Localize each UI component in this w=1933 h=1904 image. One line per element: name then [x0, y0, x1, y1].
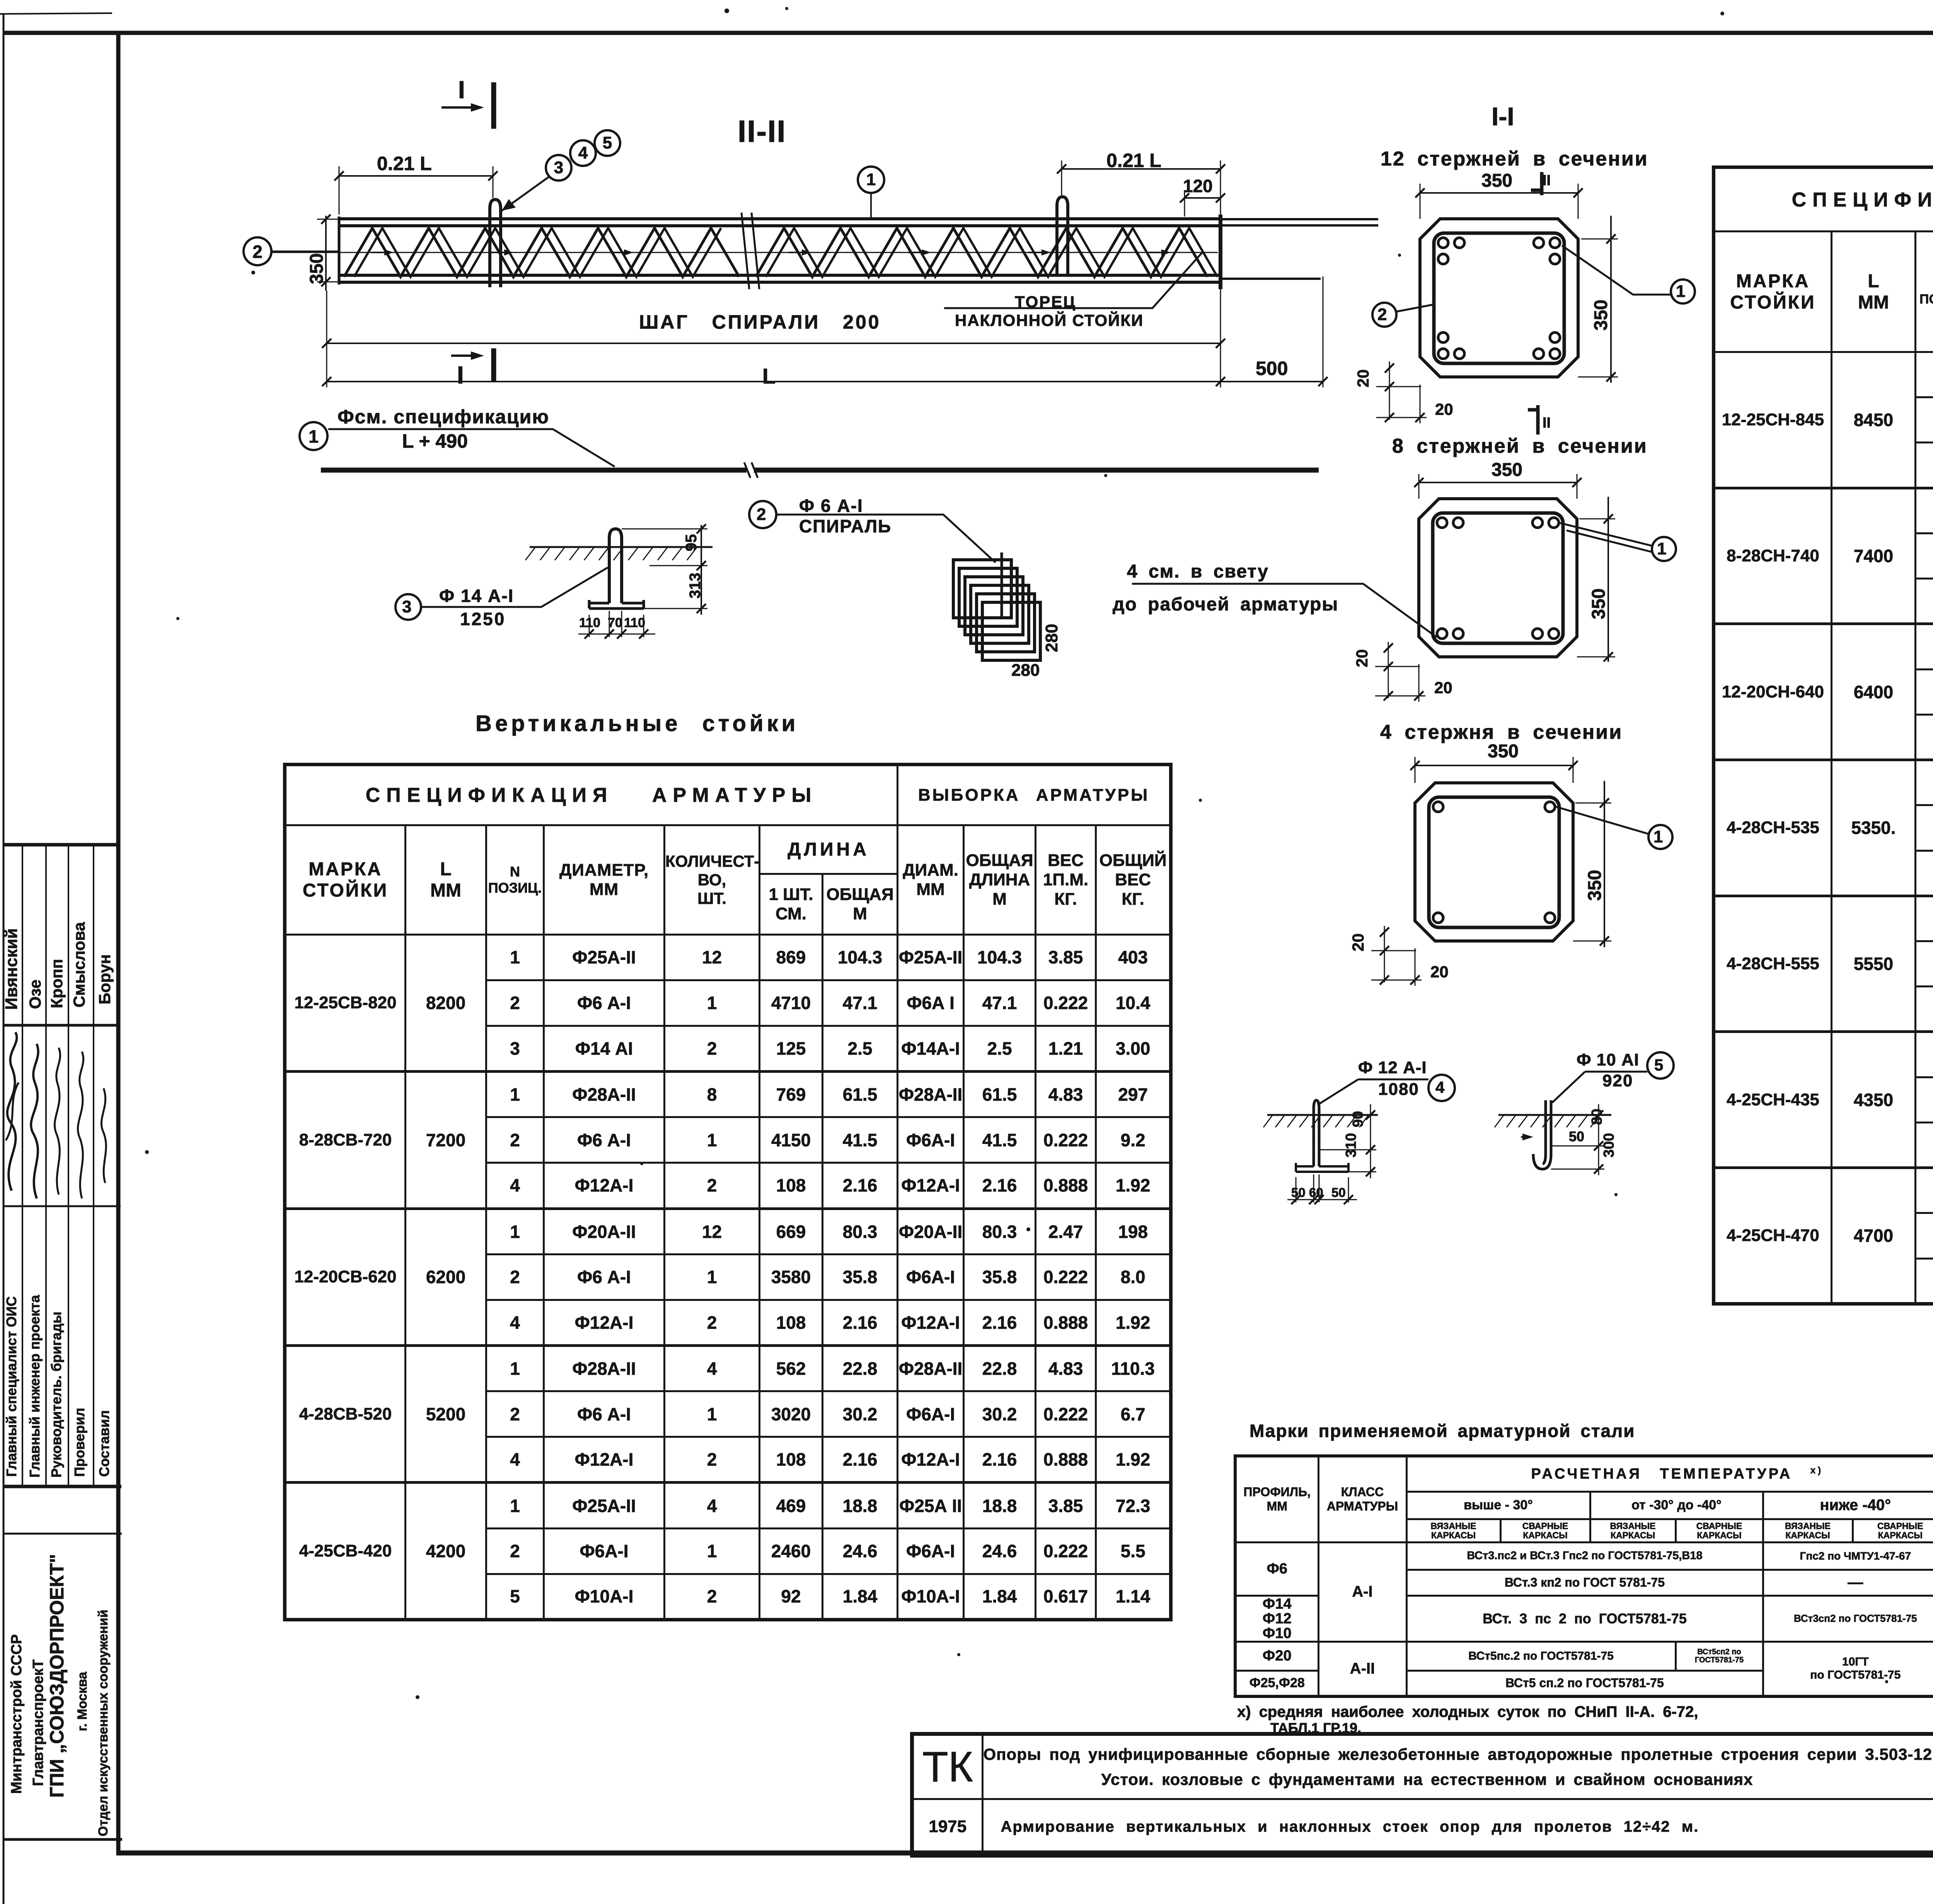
frame bottom border [116, 1851, 1933, 1856]
signature checked [78, 1052, 83, 1198]
sidebar title composed [97, 1410, 111, 1477]
detail pin pos.3 : ground line [530, 546, 713, 548]
callout 3 number [402, 598, 411, 615]
table: vertical posts specification [283, 763, 1173, 1621]
callout 1 sq1 [1676, 283, 1685, 300]
label 4cm clearance line2 [1113, 595, 1338, 614]
callout 1 square 3 [1648, 825, 1672, 849]
signature chief specialist [7, 1032, 17, 1191]
detail pin pos.3 : pin body [609, 529, 622, 603]
dim 110 left [579, 616, 600, 629]
rebar cage elevation II-II : top chord bars [339, 219, 1220, 226]
sidebar institute line 5 [97, 1610, 110, 1836]
callout 1 square 2 (two leaders) [1652, 537, 1676, 561]
detail pos.5 : dim 50 [1521, 1136, 1529, 1138]
sidebar institute line 1 [9, 1634, 24, 1794]
dim 310 [1344, 1133, 1359, 1157]
dimension 0.21L (right) [1062, 168, 1220, 170]
dim 20 sq2 bottom [1434, 680, 1452, 696]
dim 350 sq1 top [1481, 172, 1512, 190]
dim 20 sq3 left [1350, 933, 1366, 951]
dimension line: L and 500 [327, 381, 1323, 382]
dim text 500 [1256, 359, 1288, 378]
sidebar title checked [73, 1408, 87, 1477]
sidebar institute line 3 [47, 1554, 66, 1798]
rebar cage bottom chord bars [339, 275, 1220, 282]
detail pos.4 : ground line [1267, 1114, 1378, 1116]
dim 20 bottom square 1 [1389, 385, 1420, 423]
label 8 bars in section [1392, 436, 1648, 456]
section mark I (bottom) [451, 355, 476, 357]
dim 60 [1309, 1186, 1323, 1199]
label 12 bars in section [1381, 149, 1648, 169]
label 4cm clearance line1 [1127, 563, 1269, 581]
section square 8 bars : stirrup [1433, 513, 1563, 643]
detail pos.2 : spiral coils [953, 560, 1011, 618]
wire: paper edge left vertical [3, 14, 5, 1904]
title steel grades [1249, 1422, 1635, 1440]
frame top border [3, 31, 1933, 35]
cage break marks [741, 213, 759, 289]
detail pos.2 : spiral end wire [1001, 552, 1003, 617]
sidebar institute block lines [3, 1533, 122, 1535]
signature brigade leader [55, 1048, 60, 1195]
dim 350 top of square 2 [1419, 482, 1577, 483]
dim 20 left-bottom square 2 [1388, 642, 1389, 673]
section II mark top [1543, 173, 1551, 188]
label 1080 [1378, 1081, 1419, 1098]
callout 5 leader [1647, 1052, 1674, 1079]
callout 2 spiral [749, 501, 776, 528]
table: steel grades for rebar [1234, 1454, 1933, 1698]
dimension 120 [1185, 197, 1220, 199]
detail pin pos.3 : foot plate [589, 600, 644, 609]
section II mark bottom [1543, 416, 1551, 430]
section mark I (top) [441, 106, 476, 109]
dimension line: spiral pitch 200 [327, 343, 1220, 344]
dim 350 right of square 2 [1607, 497, 1609, 662]
title block (stamp) [910, 1732, 1933, 1858]
callout number 1 [309, 428, 319, 445]
sidebar name Borun [97, 954, 113, 1004]
label II-II [738, 116, 786, 147]
frame left border [116, 31, 121, 1854]
spiral wire zigzag back strand (left of break) [354, 228, 721, 277]
section square 8 bars : outer outline [1419, 499, 1577, 657]
dim text 350 cage [308, 253, 326, 284]
signature composed [101, 1088, 106, 1183]
detail pos.4 : vertical dims 90 310 [1370, 1104, 1371, 1178]
sidebar title chief specialist [5, 1296, 19, 1477]
spiral wire zigzag back strand (right of break) [766, 228, 1217, 277]
label F10AI [1577, 1052, 1639, 1069]
label F14A-I [439, 587, 514, 605]
label spiral pitch 200 [639, 312, 881, 332]
dim 50 a [1291, 1186, 1306, 1199]
spiral wire zigzag front strand (left of break) [344, 228, 739, 277]
section square 12 bars : outer outline [1420, 219, 1578, 377]
detail pin pos.3 : dims 95 and 313 [701, 525, 702, 615]
callout circle 2 (left of cage) [244, 237, 271, 265]
callout 2 number spiral [757, 506, 766, 523]
label F per specification [338, 407, 549, 426]
sidebar title chief engineer [28, 1295, 42, 1478]
label F6 A-I [799, 497, 863, 515]
footnote line 1 [1237, 1704, 1698, 1720]
callout 2 sq1 [1377, 306, 1387, 323]
dim 50 j-pin [1569, 1130, 1584, 1144]
dim 350 right of square 3 [1604, 781, 1605, 947]
label torec [1015, 294, 1076, 310]
callout number 3 [554, 159, 563, 176]
dim 350 sq3 right [1586, 870, 1604, 901]
callout number 4 [578, 145, 588, 162]
callout 1 square 1 [1671, 280, 1695, 303]
label F12A-I [1358, 1059, 1427, 1076]
sidebar name Oze [27, 980, 43, 1009]
dim 20 sq3 bottom [1430, 964, 1449, 980]
detail pos.5 : vertical dims 80 300 [1598, 1104, 1599, 1175]
lifting loop 2 (pos.3 pin) [1057, 197, 1068, 274]
title vertical posts [476, 713, 799, 735]
section square 4 bars : outer outline [1415, 783, 1573, 941]
dim 300 [1602, 1133, 1616, 1157]
callout number 1 top [866, 171, 876, 188]
dim text 120 [1183, 177, 1213, 195]
section mark II top square 1 [1531, 172, 1543, 195]
sidebar institute line 2 [31, 1659, 46, 1786]
sidebar name Smyslova [71, 922, 87, 1007]
label 4 bars in section [1380, 722, 1623, 742]
dim 20 left-bottom square 3 [1384, 926, 1385, 957]
cage left end [338, 216, 341, 285]
callout 1 sq3 [1653, 828, 1663, 845]
callout number 5 [603, 135, 612, 152]
dimension 0.21L (left) [339, 175, 493, 177]
sidebar institute line 4 [76, 1672, 89, 1731]
detail pos.4 : pin body [1314, 1100, 1319, 1166]
footnote line 2 [1270, 1721, 1361, 1735]
bar ends extending right (top) [1220, 219, 1378, 225]
detail pos.5 : J pin body [1533, 1100, 1551, 1169]
label I-I [1492, 104, 1514, 129]
callout circles 3 4 5 [546, 155, 571, 181]
callout number 2 [252, 243, 263, 261]
label I bottom [457, 363, 464, 387]
label spiral [799, 517, 891, 535]
dim 70 [608, 616, 622, 629]
dim 350 sq1 right [1592, 300, 1611, 331]
callout circle 1 (pos.1 bar) [300, 422, 327, 450]
dim 280 right [1043, 624, 1060, 652]
dim 80 [1590, 1109, 1604, 1125]
section square 12 bars : stirrup [1434, 233, 1564, 363]
label 1250 [460, 610, 506, 628]
scan noise specks [724, 9, 729, 13]
pos.1 bar (L+490) [321, 468, 1319, 473]
cage right end (torec) [1219, 215, 1222, 289]
lifting loop 1 (pos.3 pin) [490, 199, 501, 287]
cage axis line [271, 252, 1218, 253]
dim 20 sq1 left [1355, 369, 1371, 387]
callout circle 1 (on cage) [858, 167, 884, 193]
dim text 0.21L left [377, 154, 432, 173]
sidebar name Kropp [49, 959, 65, 1008]
sidebar title brigade leader [49, 1312, 63, 1478]
dim 20 sq1 bottom [1435, 401, 1453, 418]
detail pin pos.3 : dims 110 70 110 [589, 611, 644, 637]
leader: F sm. specification [328, 429, 615, 467]
dimension 350 (cage height) [325, 216, 327, 291]
dim 280 bottom [1011, 662, 1040, 679]
label L+490 [402, 431, 468, 451]
sidebar name Ivyanskiy [3, 928, 20, 1010]
dim 313 [687, 573, 703, 598]
bar end extending right (bottom) [1220, 278, 1321, 280]
dim 20 left-bottom square 1 [1389, 361, 1390, 392]
dim 350 sq2 right [1590, 588, 1608, 619]
callout 3 leader [395, 594, 421, 620]
detail pos.4 : dims 50 60 50 [1296, 1174, 1348, 1202]
dim 350 right of square 1 [1610, 216, 1612, 383]
rebar dots square 1 [1438, 238, 1448, 248]
rebar dots square 3 [1433, 802, 1443, 812]
dim 110 right [624, 616, 645, 629]
label 920 [1602, 1072, 1633, 1089]
detail pos.5 : ground line [1498, 1114, 1611, 1116]
dim 20 bottom square 2 [1388, 664, 1419, 702]
label I top [458, 77, 465, 102]
callout 1 sq2 [1657, 540, 1666, 557]
section mark II bottom square 1 [1528, 405, 1539, 435]
dim 20 bottom square 3 [1384, 948, 1415, 986]
callout 4 number [1435, 1079, 1444, 1096]
detail pos.4 : foot [1296, 1163, 1348, 1172]
table: inclined posts specification [1712, 165, 1933, 1306]
axis arrow marks [371, 252, 384, 253]
sidebar staff table lines [3, 843, 119, 847]
dim text L [762, 365, 776, 387]
rebar dots square 2 [1437, 518, 1447, 528]
leader: 4cm clearance note [1132, 584, 1437, 637]
dim 350 sq3 top [1488, 742, 1519, 761]
dim 350 top of square 3 [1415, 765, 1573, 766]
dim text 0.21L right [1106, 151, 1161, 170]
spiral wire zigzag front strand (right of break) [756, 228, 1207, 277]
label naklonnoy stoyki [955, 312, 1144, 329]
section square 4 bars : stirrup [1429, 797, 1559, 927]
dim 350 top of square 1 [1420, 192, 1578, 194]
callout 2 square 1 [1372, 303, 1396, 327]
wire: paper edge top-left [0, 13, 112, 14]
signature chief engineer [31, 1044, 38, 1198]
dim 95 [684, 534, 699, 552]
dim 20 sq2 left [1354, 649, 1370, 667]
dim 350 sq2 top [1492, 461, 1522, 479]
callout 5 number [1654, 1057, 1663, 1073]
callout 4 leader [1428, 1075, 1455, 1101]
dim 90 [1351, 1111, 1365, 1127]
leader: torec naklonnoy stoyki [944, 253, 1202, 308]
dim 50 b [1331, 1186, 1346, 1199]
